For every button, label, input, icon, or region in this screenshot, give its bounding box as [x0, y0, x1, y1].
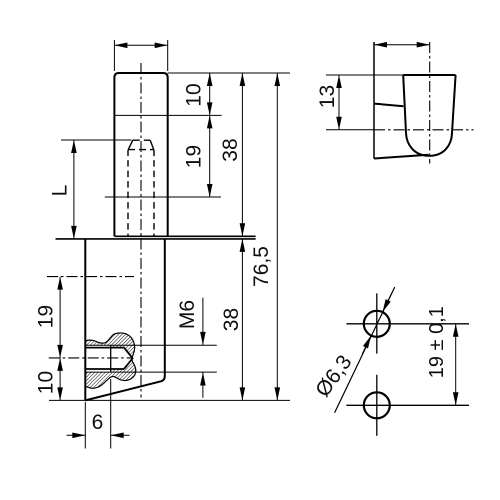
svg-text:L: L	[49, 185, 72, 197]
leader line Ø6,3	[335, 287, 395, 413]
dim 10 line	[209, 73, 211, 115]
M6 thread major line bottom	[85, 371, 217, 373]
body bottom slanted edge	[85, 377, 165, 401]
washer top edge / pin bottom	[114, 235, 255, 237]
svg-text:76,5: 76,5	[250, 246, 273, 287]
dim 19 lower line	[59, 277, 61, 358]
side view pin U profile	[403, 75, 455, 156]
top width dim line	[114, 44, 167, 46]
leader arrow upper (points to circle from outside)	[383, 294, 392, 313]
side view pin top	[403, 74, 455, 76]
thread end line	[110, 345, 112, 372]
body right edge	[164, 239, 166, 377]
hatched broken-out section (fill)	[85, 333, 136, 388]
hidden hole chamfer left	[128, 140, 132, 149]
svg-text:19 ± 0,1: 19 ± 0,1	[426, 306, 448, 378]
13 dim line	[338, 75, 340, 130]
dim 6: extension right	[110, 379, 112, 449]
svg-text:10: 10	[182, 83, 205, 106]
svg-text:19: 19	[182, 145, 205, 168]
pin body outline	[114, 73, 167, 236]
svg-text:Ø6,3: Ø6,3	[311, 351, 356, 401]
main vertical centreline	[140, 63, 142, 398]
dim 19±0,1 line	[455, 324, 457, 406]
hidden hole flat top	[133, 139, 150, 141]
upper hole horizontal centreline	[47, 276, 134, 278]
pin line at 19 below groove	[105, 196, 221, 198]
svg-text:6: 6	[92, 411, 104, 434]
washer bottom edge	[56, 238, 256, 240]
leader arrow lower	[362, 336, 371, 355]
svg-text:38: 38	[220, 308, 243, 331]
section break-out boundary (freehand line)	[85, 333, 136, 388]
body left edge	[84, 239, 86, 401]
dim 10 lower line	[59, 358, 61, 401]
dim 38 lower line	[241, 239, 243, 401]
upper hole horizontal centreline + extension	[346, 323, 469, 325]
M6 hole centreline	[49, 357, 133, 359]
top width dim: right extension	[167, 40, 169, 71]
svg-text:13: 13	[316, 85, 339, 108]
dim 6: left arrow	[67, 434, 86, 436]
upper hole circle	[364, 311, 390, 337]
svg-text:M6: M6	[176, 300, 199, 329]
svg-text:38: 38	[219, 138, 242, 161]
M6 dim lower arrow segment	[202, 373, 204, 398]
dim 6: extension left	[84, 402, 86, 449]
lower hole vertical centreline	[376, 375, 378, 436]
hidden hole shoulder dashed line	[128, 149, 154, 151]
lower hole circle	[364, 392, 390, 418]
top width dim: left extension	[113, 40, 115, 71]
white cut-out of M6 tapped hole inside the section	[85, 345, 132, 372]
hidden hole in pin: right dashed line	[153, 150, 155, 236]
M6 thread major line top	[85, 344, 217, 346]
side view step line	[374, 104, 403, 107]
M6 dim upper arrow segment	[202, 298, 204, 345]
lower hole horizontal centreline + extension	[346, 404, 469, 406]
side view body left edge	[373, 42, 375, 159]
side view horizontal centreline	[374, 129, 474, 131]
pin groove line (10 from top)	[114, 114, 221, 116]
M6 core line top	[85, 347, 124, 349]
dim 76,5 line	[276, 73, 278, 400]
bottom extension line	[49, 399, 290, 401]
M6 drill cone	[124, 348, 133, 369]
hidden hole in pin: left dashed line	[127, 150, 129, 236]
hidden hole chamfer right	[150, 140, 153, 149]
svg-text:10: 10	[34, 371, 57, 394]
svg-text:19: 19	[34, 305, 57, 328]
13 dim extension top	[326, 74, 403, 76]
side view vertical centreline	[429, 42, 431, 164]
13 dim extension bottom	[326, 129, 374, 131]
L dim extension top	[61, 139, 132, 141]
upper hole vertical centreline	[376, 293, 378, 353]
side view bottom edge	[374, 155, 429, 159]
dim 6: right arrow	[111, 434, 130, 436]
dim 19 line	[209, 115, 211, 197]
side view top dim line	[374, 44, 430, 46]
L dim line	[73, 140, 75, 239]
extension line pin top to right	[168, 72, 290, 74]
dim 38 upper line	[241, 73, 243, 236]
M6 core line bottom	[85, 368, 124, 370]
